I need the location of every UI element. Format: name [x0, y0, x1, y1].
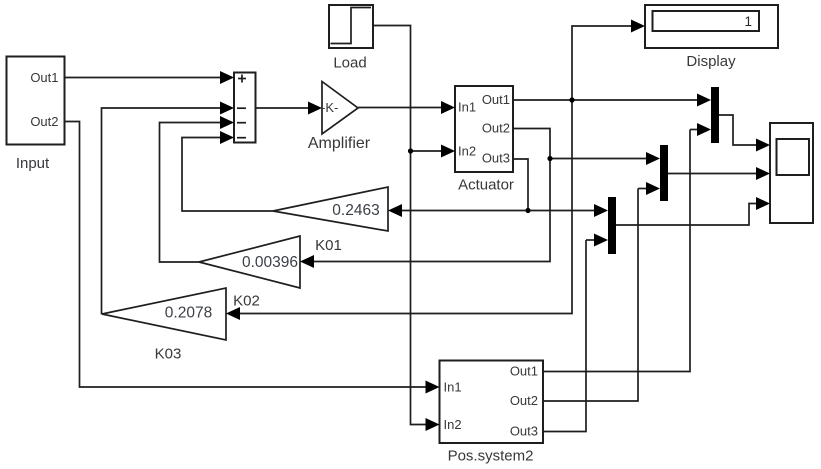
wire: [719, 115, 761, 145]
subsystem Actuator: [455, 86, 513, 172]
svg-text:Out1: Out1: [510, 364, 538, 379]
junction dot J4 (Actuator Out3 branch): [525, 208, 530, 213]
arrowhead into Mux2 in1: [646, 152, 660, 165]
svg-text:0.2463: 0.2463: [332, 202, 379, 219]
arrowhead into gain K02: [300, 255, 314, 268]
arrowhead into sum -4: [220, 131, 234, 144]
gain K03 0.2078: [102, 288, 226, 340]
svg-text:Load: Load: [333, 55, 366, 72]
arrowhead into Amplifier: [308, 102, 322, 115]
svg-text:In2: In2: [458, 144, 476, 159]
sum sign -3: [237, 122, 246, 124]
svg-text:K03: K03: [155, 346, 182, 363]
wire: [513, 159, 528, 211]
wire: [102, 108, 227, 314]
wire: [513, 129, 652, 159]
svg-text:0.2078: 0.2078: [165, 304, 212, 321]
wire: [65, 77, 227, 79]
svg-text:Input: Input: [16, 155, 50, 172]
wire: [586, 239, 600, 241]
arrowhead into Scope in2: [756, 167, 770, 180]
arrowhead into Mux2 in2: [646, 182, 660, 195]
subsystem Input: [7, 57, 65, 145]
svg-text:In1: In1: [444, 380, 462, 395]
wire: [308, 159, 550, 262]
wire: [160, 123, 227, 263]
svg-text:K02: K02: [233, 293, 260, 310]
svg-text:Out2: Out2: [482, 121, 510, 136]
subsystem Pos.system2: [440, 361, 544, 444]
wire: [396, 210, 600, 212]
junction dot J1 (Load to Actuator In2 / Pos In2): [408, 148, 413, 153]
wire: [65, 122, 434, 388]
arrowhead into Actuator In2: [441, 145, 455, 158]
sum block S1: [234, 73, 256, 143]
gain K02 0.00396: [199, 236, 300, 288]
sum sign -2: [237, 107, 246, 109]
sum sign +: [238, 75, 246, 83]
svg-text:Out1: Out1: [30, 70, 58, 85]
arrowhead into Pos In2: [426, 418, 440, 431]
arrowhead into gain K03: [226, 307, 240, 320]
arrowhead into gain K01: [388, 204, 402, 217]
junction dot J2 (Actuator Out1 branch): [569, 97, 574, 102]
gain K01 0.2463: [273, 187, 388, 231]
mux M2: [660, 145, 668, 201]
arrowhead into Pos In1: [426, 381, 440, 394]
arrowhead into Actuator In1: [441, 101, 455, 114]
wire: [182, 138, 273, 212]
wire: [690, 129, 703, 131]
junction dot J3 (Actuator Out2 branch): [547, 156, 552, 161]
mux M1: [711, 87, 719, 143]
wire: [234, 100, 572, 314]
mux M3: [608, 197, 616, 254]
wire: [616, 204, 761, 226]
arrowhead into Mux1 in2: [697, 123, 711, 136]
wire: [668, 173, 761, 175]
svg-text:Out3: Out3: [482, 151, 510, 166]
wire: [513, 99, 703, 101]
wire: [543, 189, 638, 402]
wire: [638, 188, 652, 190]
sum sign -4: [237, 137, 246, 139]
svg-text:K01: K01: [315, 237, 342, 254]
svg-text:In2: In2: [444, 417, 462, 432]
wire: [373, 26, 433, 425]
wire: [411, 150, 448, 152]
svg-text:Display: Display: [686, 53, 736, 70]
arrowhead into Scope in1: [756, 139, 770, 152]
svg-text:-K-: -K-: [321, 100, 338, 115]
svg-text:Out3: Out3: [510, 424, 538, 439]
svg-text:0.00396: 0.00396: [242, 254, 298, 271]
svg-text:In1: In1: [458, 100, 476, 115]
arrowhead into Mux3 in1: [594, 204, 608, 217]
svg-text:Pos.system2: Pos.system2: [448, 448, 534, 465]
svg-text:Amplifier: Amplifier: [308, 135, 371, 152]
arrowhead into sum +: [220, 71, 234, 84]
arrowhead into sum -3: [220, 116, 234, 129]
arrowhead into Mux1 in1: [697, 94, 711, 107]
source Load (step): [329, 5, 373, 48]
sink Display: [645, 5, 778, 48]
arrowhead into Mux3 in2: [594, 234, 608, 247]
svg-text:Out1: Out1: [482, 92, 510, 107]
wire: [543, 240, 586, 432]
wire: [256, 107, 315, 109]
arrowhead into Display: [631, 20, 645, 33]
sink Scope: [770, 123, 813, 223]
svg-text:Out2: Out2: [510, 393, 538, 408]
wire: [543, 130, 690, 372]
gain Amplifier -K-: [322, 82, 358, 135]
wire: [572, 26, 637, 100]
wire: [358, 107, 447, 109]
arrowhead into Scope in3: [756, 197, 770, 210]
svg-text:Out2: Out2: [30, 114, 58, 129]
svg-text:Actuator: Actuator: [458, 177, 514, 194]
svg-text:1: 1: [744, 14, 752, 29]
arrowhead into sum -2: [220, 102, 234, 115]
